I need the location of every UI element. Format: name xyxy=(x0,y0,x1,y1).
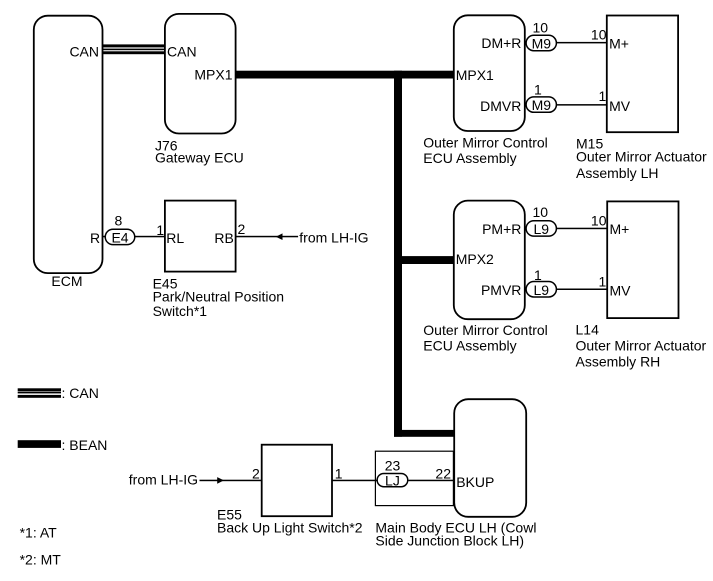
svg-text:Assembly LH: Assembly LH xyxy=(576,165,658,181)
svg-text:MV: MV xyxy=(609,98,631,114)
svg-text:L9: L9 xyxy=(534,221,550,237)
svg-text:MPX2: MPX2 xyxy=(456,251,494,267)
svg-text:Outer Mirror Control: Outer Mirror Control xyxy=(423,322,547,338)
junction block LJ outline rect xyxy=(375,451,453,505)
wire BEAN bottom elbow to Main Body ECU xyxy=(394,430,454,437)
svg-text:Outer Mirror Actuator: Outer Mirror Actuator xyxy=(576,338,707,354)
svg-text:MPX1: MPX1 xyxy=(456,67,494,83)
connector L9 pin 1 oval xyxy=(526,267,556,298)
svg-text:ECM: ECM xyxy=(51,273,82,289)
svg-text:22: 22 xyxy=(435,465,451,481)
wire BEAN MPX2 branch xyxy=(394,256,454,264)
legend CAN symbol xyxy=(18,385,99,401)
svg-text:10: 10 xyxy=(591,213,607,229)
svg-text:2: 2 xyxy=(238,221,246,237)
Outer Mirror Control ECU Assembly 2 box xyxy=(423,201,547,354)
svg-text:ECU Assembly: ECU Assembly xyxy=(423,150,516,166)
svg-text:1: 1 xyxy=(156,222,164,238)
wire L9 to L14 M+ xyxy=(557,213,608,230)
connector M9 pin 1 oval xyxy=(526,82,556,114)
wire BEAN MPX1 segment (J76 to Outer Mirror ECU 1) xyxy=(235,71,454,79)
svg-text:M+: M+ xyxy=(609,35,629,51)
svg-text:Outer Mirror Control: Outer Mirror Control xyxy=(423,135,547,151)
wire from LH-IG into E55 xyxy=(129,472,262,488)
wire LJ to BKUP xyxy=(409,465,454,481)
gateway ECU J76 box xyxy=(155,14,244,166)
svg-text:1: 1 xyxy=(534,82,542,98)
wire CAN (triple line ECM to J76) xyxy=(103,44,166,54)
svg-text:Park/Neutral Position: Park/Neutral Position xyxy=(153,288,285,304)
svg-text:R: R xyxy=(90,230,100,246)
Outer Mirror Control ECU Assembly 1 box xyxy=(423,15,547,166)
svg-text:10: 10 xyxy=(533,204,549,220)
svg-text:1: 1 xyxy=(534,267,542,283)
svg-text:10: 10 xyxy=(533,20,549,36)
svg-text:10: 10 xyxy=(591,26,607,42)
svg-text:MV: MV xyxy=(610,283,632,299)
svg-text:2: 2 xyxy=(252,466,260,482)
svg-text:23: 23 xyxy=(385,457,401,473)
connector E4 pin 8 oval xyxy=(105,213,135,246)
E45 Park/Neutral Position Switch box xyxy=(153,201,285,319)
wire M9 to M15 MV xyxy=(557,88,607,106)
wire M9 to M15 M+ xyxy=(557,26,607,43)
wire from LH-IG into E45 RB xyxy=(236,230,369,246)
connector L9 pin 10 oval xyxy=(526,204,556,237)
svg-text:M+: M+ xyxy=(610,221,630,237)
svg-text:BKUP: BKUP xyxy=(456,474,494,490)
svg-text:1: 1 xyxy=(599,88,607,104)
svg-text:RL: RL xyxy=(166,230,184,246)
svg-text:LJ: LJ xyxy=(385,473,400,489)
svg-text:M9: M9 xyxy=(532,97,552,113)
svg-text:: CAN: : CAN xyxy=(62,385,99,401)
svg-text:*1: AT: *1: AT xyxy=(20,524,58,540)
svg-text:MPX1: MPX1 xyxy=(194,66,232,82)
wire E55 to LJ xyxy=(332,480,377,482)
svg-text:CAN: CAN xyxy=(69,43,99,59)
L14 Outer Mirror Actuator RH box xyxy=(576,201,707,369)
svg-text:from LH-IG: from LH-IG xyxy=(299,230,368,246)
svg-text:PM+R: PM+R xyxy=(482,221,521,237)
svg-text:ECU Assembly: ECU Assembly xyxy=(423,337,516,353)
E55 Back Up Light Switch box xyxy=(217,445,363,536)
svg-text:RB: RB xyxy=(214,230,233,246)
svg-text:L9: L9 xyxy=(534,282,550,298)
svg-text:E4: E4 xyxy=(111,230,128,246)
wire ECM R to E45 RL xyxy=(103,236,165,238)
wire BEAN vertical trunk xyxy=(394,71,402,437)
svg-text:*2: MT: *2: MT xyxy=(20,551,62,567)
svg-text:L14: L14 xyxy=(576,321,600,337)
svg-text:Gateway ECU: Gateway ECU xyxy=(155,150,244,166)
svg-text:1: 1 xyxy=(335,466,343,482)
svg-text:Side Junction Block LH): Side Junction Block LH) xyxy=(375,532,524,548)
svg-text:Back Up Light Switch*2: Back Up Light Switch*2 xyxy=(217,520,363,536)
svg-text:: BEAN: : BEAN xyxy=(62,437,108,453)
svg-text:PMVR: PMVR xyxy=(481,282,521,298)
wire L9 to L14 MV xyxy=(557,274,608,291)
svg-text:1: 1 xyxy=(599,274,607,290)
ECM box xyxy=(34,16,103,289)
Main Body ECU LH box xyxy=(375,399,536,548)
svg-text:8: 8 xyxy=(115,213,123,229)
svg-text:CAN: CAN xyxy=(167,43,197,59)
svg-text:DM+R: DM+R xyxy=(481,35,521,51)
legend BEAN symbol xyxy=(18,437,108,453)
svg-text:Switch*1: Switch*1 xyxy=(153,303,208,319)
svg-text:Assembly RH: Assembly RH xyxy=(576,354,661,370)
M15 Outer Mirror Actuator LH box xyxy=(576,16,707,181)
svg-text:Outer Mirror Actuator: Outer Mirror Actuator xyxy=(576,149,707,165)
svg-text:from LH-IG: from LH-IG xyxy=(129,472,198,488)
connector LJ oval xyxy=(377,457,408,488)
connector M9 pin 10 oval xyxy=(526,20,556,52)
svg-text:DMVR: DMVR xyxy=(480,98,521,114)
svg-text:M9: M9 xyxy=(532,36,552,52)
